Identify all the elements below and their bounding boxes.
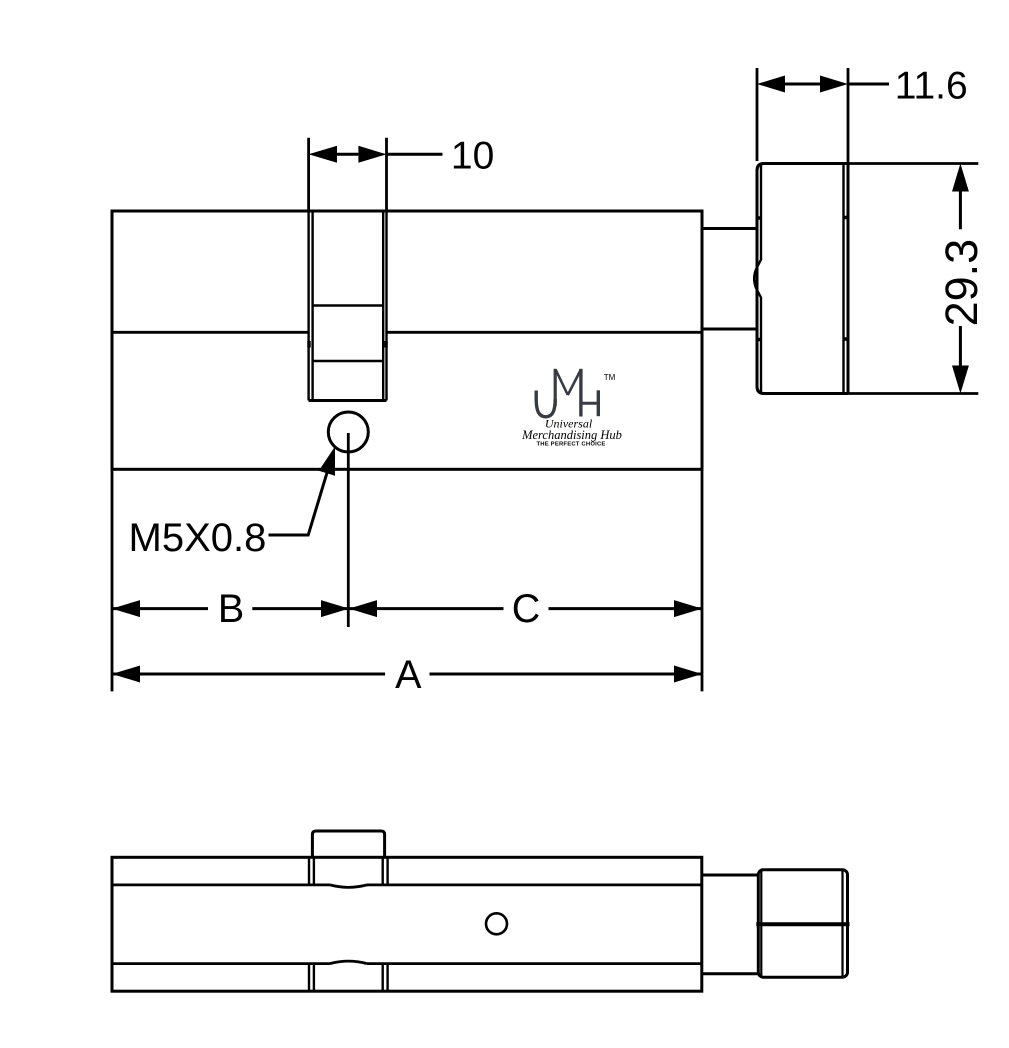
svg-text:10: 10 [451, 135, 494, 178]
svg-text:M5X0.8: M5X0.8 [129, 516, 267, 560]
svg-text:Merchandising Hub: Merchandising Hub [521, 428, 622, 442]
svg-text:A: A [395, 653, 422, 697]
svg-text:11.6: 11.6 [895, 65, 968, 108]
svg-text:C: C [512, 587, 541, 631]
svg-text:THE PERFECT CHOICE: THE PERFECT CHOICE [536, 442, 605, 448]
svg-text:29.3: 29.3 [936, 239, 987, 327]
svg-text:B: B [218, 587, 244, 631]
svg-text:TM: TM [604, 373, 616, 382]
